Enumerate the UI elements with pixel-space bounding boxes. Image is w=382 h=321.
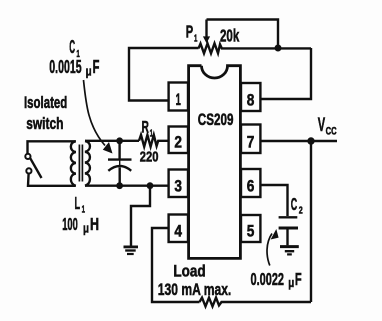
- svg-text:Isolated: Isolated: [24, 94, 67, 112]
- svg-text:1: 1: [194, 32, 197, 44]
- svg-text:H: H: [90, 214, 99, 234]
- svg-text:0.0015: 0.0015: [49, 57, 81, 77]
- svg-text:5: 5: [247, 221, 255, 240]
- svg-text:8: 8: [247, 90, 255, 109]
- svg-text:6: 6: [247, 176, 255, 195]
- svg-text:F: F: [93, 57, 100, 77]
- svg-text:C: C: [291, 194, 298, 214]
- svg-text:2: 2: [174, 132, 182, 151]
- svg-text:P: P: [186, 22, 194, 42]
- svg-text:C: C: [69, 37, 75, 57]
- svg-text:100: 100: [62, 214, 78, 234]
- svg-text:20k: 20k: [220, 26, 239, 46]
- svg-text:μ: μ: [288, 275, 294, 290]
- svg-text:CC: CC: [326, 126, 337, 138]
- svg-text:R: R: [142, 118, 149, 137]
- svg-text:2: 2: [299, 205, 303, 217]
- svg-text:1: 1: [150, 127, 153, 139]
- svg-text:4: 4: [174, 221, 182, 240]
- svg-text:μ: μ: [83, 220, 89, 235]
- svg-text:CS209: CS209: [198, 110, 234, 129]
- svg-text:0.0022: 0.0022: [251, 269, 285, 289]
- svg-text:μ: μ: [86, 64, 92, 79]
- svg-text:1: 1: [176, 90, 181, 109]
- svg-text:1: 1: [82, 204, 85, 216]
- svg-text:Load: Load: [173, 261, 205, 280]
- svg-text:220: 220: [140, 150, 159, 166]
- svg-text:7: 7: [247, 132, 255, 151]
- svg-text:V: V: [318, 114, 325, 136]
- svg-text:L: L: [75, 193, 81, 213]
- svg-text:130 mA max.: 130 mA max.: [158, 280, 232, 299]
- svg-text:F: F: [295, 269, 302, 289]
- svg-text:3: 3: [174, 176, 182, 195]
- svg-text:switch: switch: [26, 115, 63, 133]
